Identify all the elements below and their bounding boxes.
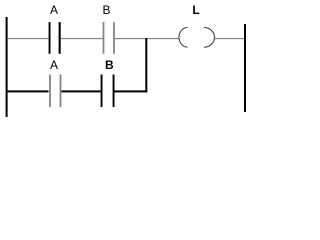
svg-text:A: A: [50, 3, 58, 17]
svg-text:B: B: [102, 3, 110, 17]
svg-text:B: B: [105, 58, 114, 72]
svg-text:A: A: [50, 58, 58, 72]
svg-text:L: L: [192, 3, 199, 17]
